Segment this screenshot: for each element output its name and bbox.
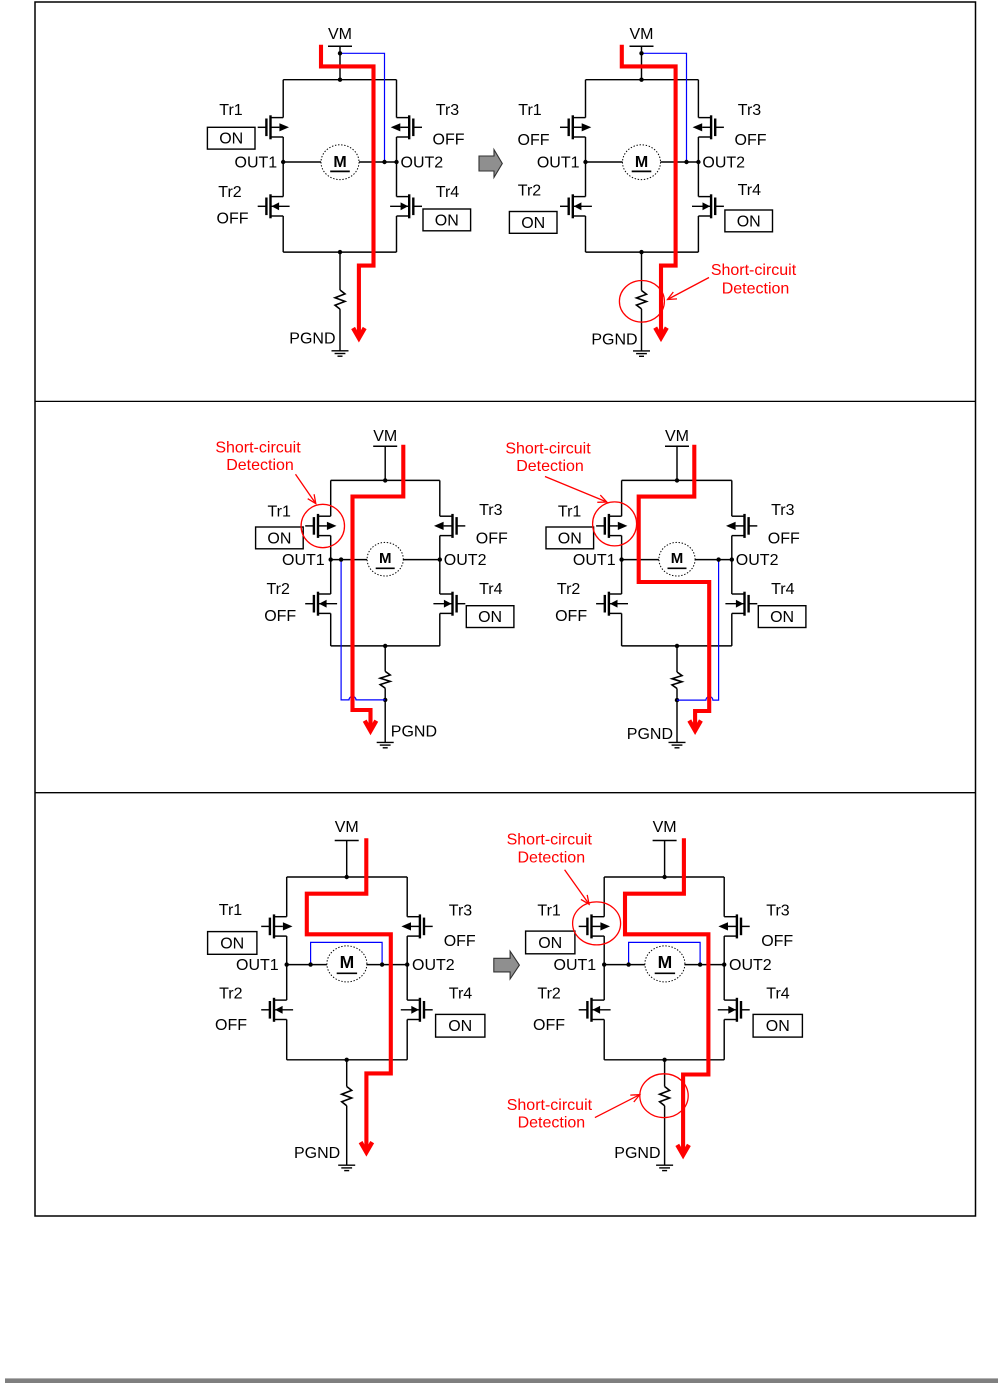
node OUT2 (C1) bbox=[394, 160, 398, 164]
ground PGND symbol (C6) bbox=[656, 1164, 673, 1166]
svg-text:M: M bbox=[635, 154, 648, 171]
wire right vertical OUT2-Tr4 (C3) bbox=[439, 560, 441, 594]
node OUT1 (C6) bbox=[602, 962, 606, 966]
svg-text:ON: ON bbox=[448, 1018, 472, 1035]
svg-text:Detection: Detection bbox=[226, 457, 294, 474]
node blue junction (C1) bbox=[382, 160, 386, 164]
transistor Tr2 (C6) bbox=[579, 998, 611, 1022]
svg-text:ON: ON bbox=[435, 212, 459, 229]
red detection circle (C6) bbox=[640, 1074, 688, 1118]
motor M (C1) bbox=[321, 145, 359, 180]
node top rail (C2) bbox=[639, 78, 643, 82]
Tr1 state ON box (C3) bbox=[256, 527, 304, 549]
svg-text:OFF: OFF bbox=[761, 933, 793, 950]
red detection circle (C6) bbox=[573, 902, 621, 945]
top rail wire (C4) bbox=[622, 479, 732, 481]
svg-text:M: M bbox=[340, 952, 355, 972]
svg-text:Detection: Detection bbox=[518, 1114, 586, 1131]
svg-text:Tr4: Tr4 bbox=[738, 182, 762, 199]
wire motor to OUT2 (C4) bbox=[695, 559, 732, 561]
Tr4 state ON box (C6) bbox=[753, 1014, 802, 1037]
bottom rail wire (C5) bbox=[287, 1059, 408, 1061]
svg-text:Tr2: Tr2 bbox=[537, 986, 561, 1003]
svg-text:Detection: Detection bbox=[722, 281, 790, 298]
wire right vertical lower (C1) bbox=[396, 216, 398, 252]
Tr4 state ON box (C2) bbox=[725, 210, 773, 232]
svg-text:Tr4: Tr4 bbox=[436, 184, 460, 201]
wire left vertical lower (C6) bbox=[603, 1020, 605, 1060]
wire right vertical OUT2-Tr4 (C6) bbox=[723, 965, 725, 1001]
red current path (C3) bbox=[353, 445, 404, 727]
motor M (C5) bbox=[327, 946, 367, 982]
transistor Tr4 (C6) bbox=[718, 998, 750, 1022]
top rail wire (C1) bbox=[283, 79, 396, 81]
node bottom rail (C5) bbox=[345, 1058, 349, 1062]
transistor Tr2 (C4) bbox=[596, 592, 628, 616]
node OUT1 (C2) bbox=[583, 160, 587, 164]
svg-text:Tr4: Tr4 bbox=[479, 581, 503, 598]
wire right vertical OUT2-Tr4 (C4) bbox=[731, 560, 733, 594]
bottom gray bar bbox=[5, 1378, 998, 1383]
node bottom rail (C6) bbox=[662, 1058, 666, 1062]
node blue junction (C1) bbox=[338, 51, 342, 55]
annotation arrow (C3) bbox=[296, 474, 316, 503]
transistor Tr1 (C6) bbox=[579, 914, 610, 938]
wire right vertical OUT2-Tr4 (C2) bbox=[697, 162, 699, 197]
svg-text:Tr2: Tr2 bbox=[266, 581, 290, 598]
svg-text:Tr2: Tr2 bbox=[557, 581, 581, 598]
annotation arrow (C4) bbox=[545, 477, 607, 503]
node bottom rail (C1) bbox=[338, 250, 342, 254]
transistor Tr4 (C3) bbox=[433, 592, 465, 616]
node resistor-PGND junction (C3) bbox=[383, 698, 387, 702]
svg-text:Tr3: Tr3 bbox=[771, 502, 795, 519]
svg-text:OUT1: OUT1 bbox=[554, 957, 597, 974]
wire left vertical upper (C3) bbox=[330, 480, 332, 516]
VM supply bar (C6) bbox=[653, 840, 677, 842]
svg-text:Tr1: Tr1 bbox=[219, 102, 243, 119]
sense resistor (C5) bbox=[342, 1087, 352, 1106]
svg-text:OFF: OFF bbox=[433, 132, 465, 149]
wire VM to top rail (C3) bbox=[384, 446, 386, 480]
svg-text:OFF: OFF bbox=[476, 531, 508, 548]
svg-text:OUT1: OUT1 bbox=[282, 552, 325, 569]
transistor Tr4 (C2) bbox=[692, 194, 724, 218]
svg-text:OFF: OFF bbox=[264, 608, 296, 625]
wire left vertical OUT1-Tr2 (C6) bbox=[603, 965, 605, 1001]
wire sense resistor to ground (C2) bbox=[641, 309, 643, 351]
node OUT2 (C5) bbox=[405, 962, 409, 966]
wire sense resistor to ground (C4) bbox=[676, 689, 678, 743]
svg-text:OFF: OFF bbox=[444, 933, 476, 950]
bottom rail wire (C4) bbox=[622, 645, 732, 647]
svg-text:Tr4: Tr4 bbox=[771, 581, 795, 598]
wire motor to OUT2 (C6) bbox=[685, 964, 724, 966]
svg-text:OUT1: OUT1 bbox=[235, 155, 278, 172]
wire motor to OUT2 (C3) bbox=[403, 559, 440, 561]
svg-text:Tr3: Tr3 bbox=[479, 502, 503, 519]
svg-text:ON: ON bbox=[766, 1018, 790, 1035]
wire left vertical Tr1-OUT1 (C1) bbox=[282, 137, 284, 162]
VM supply bar (C5) bbox=[335, 840, 359, 842]
top rail wire (C5) bbox=[287, 876, 408, 878]
wire left vertical OUT1-Tr2 (C5) bbox=[286, 965, 288, 1001]
wire left vertical OUT1-Tr2 (C2) bbox=[585, 162, 587, 197]
bottom rail wire (C1) bbox=[283, 251, 396, 253]
panel separator 2 bbox=[35, 792, 976, 794]
wire left vertical upper (C1) bbox=[282, 80, 284, 118]
blue short wire (C4) bbox=[677, 560, 719, 701]
blue short wire (C2) bbox=[642, 53, 687, 162]
svg-text:Tr1: Tr1 bbox=[537, 903, 561, 920]
svg-text:OFF: OFF bbox=[768, 531, 800, 548]
transistor Tr3 (C1) bbox=[391, 115, 422, 139]
red current path (C2) bbox=[622, 45, 676, 334]
Tr4 state ON box (C5) bbox=[436, 1014, 485, 1037]
node OUT1 (C5) bbox=[285, 962, 289, 966]
node blue junction (C6) bbox=[698, 962, 702, 966]
annotation arrow (C6) bbox=[595, 1095, 640, 1118]
wire right vertical upper (C4) bbox=[731, 480, 733, 516]
svg-text:ON: ON bbox=[220, 936, 244, 953]
sense resistor (C2) bbox=[637, 291, 647, 309]
svg-text:OUT2: OUT2 bbox=[729, 957, 772, 974]
sense resistor (C6) bbox=[660, 1087, 670, 1106]
svg-text:VM: VM bbox=[653, 819, 677, 836]
node blue junction (C4) bbox=[716, 557, 720, 561]
svg-text:Tr1: Tr1 bbox=[558, 504, 582, 521]
wire OUT1 to motor (C3) bbox=[331, 559, 367, 561]
transistor Tr4 (C5) bbox=[401, 998, 433, 1022]
wire bottom rail to sense resistor (C6) bbox=[664, 1060, 666, 1087]
ground PGND symbol (C2) bbox=[633, 350, 650, 352]
transistor Tr3 (C3) bbox=[434, 514, 465, 538]
wire right vertical lower (C5) bbox=[406, 1020, 408, 1060]
panel separator 1 bbox=[35, 400, 976, 402]
svg-text:Tr2: Tr2 bbox=[219, 986, 243, 1003]
node blue junction (C6) bbox=[626, 962, 630, 966]
wire right vertical upper (C5) bbox=[406, 877, 408, 917]
svg-text:Tr4: Tr4 bbox=[449, 986, 473, 1003]
wire OUT1 to motor (C6) bbox=[604, 964, 645, 966]
ground PGND symbol (C4) bbox=[669, 741, 686, 743]
wire VM to top rail (C1) bbox=[339, 46, 341, 79]
svg-text:Short-circuit: Short-circuit bbox=[507, 832, 593, 849]
bottom rail wire (C3) bbox=[331, 645, 440, 647]
node OUT1 (C1) bbox=[281, 160, 285, 164]
transistor Tr4 (C1) bbox=[390, 194, 422, 218]
svg-text:PGND: PGND bbox=[591, 331, 637, 348]
svg-text:Tr1: Tr1 bbox=[518, 102, 542, 119]
VM supply bar (C4) bbox=[665, 445, 689, 447]
top rail wire (C2) bbox=[586, 79, 699, 81]
node OUT2 (C4) bbox=[730, 557, 734, 561]
svg-text:Tr3: Tr3 bbox=[436, 102, 460, 119]
wire right vertical Tr3-OUT2 (C6) bbox=[723, 936, 725, 965]
transistor Tr3 (C6) bbox=[718, 914, 749, 938]
wire VM to top rail (C6) bbox=[664, 841, 666, 878]
ground PGND symbol (C3) bbox=[377, 741, 394, 743]
node blue junction (C5) bbox=[380, 962, 384, 966]
wire right vertical upper (C2) bbox=[697, 80, 699, 118]
annotation arrow (C2) bbox=[668, 278, 710, 300]
Tr4 state ON box (C3) bbox=[466, 606, 514, 628]
wire bottom rail to sense resistor (C2) bbox=[641, 252, 643, 290]
node OUT2 (C6) bbox=[722, 962, 726, 966]
transistor Tr2 (C5) bbox=[261, 998, 293, 1022]
wire VM to top rail (C4) bbox=[676, 446, 678, 480]
wire right vertical upper (C3) bbox=[439, 480, 441, 516]
Tr1 state ON box (C5) bbox=[208, 932, 257, 955]
node blue junction (C2) bbox=[684, 160, 688, 164]
sense resistor (C3) bbox=[380, 671, 390, 688]
svg-text:ON: ON bbox=[521, 215, 545, 232]
VM supply bar (C2) bbox=[630, 45, 654, 47]
wire sense resistor to ground (C5) bbox=[346, 1106, 348, 1166]
svg-text:Short-circuit: Short-circuit bbox=[215, 440, 301, 457]
svg-text:OFF: OFF bbox=[518, 132, 550, 149]
svg-text:PGND: PGND bbox=[294, 1145, 340, 1162]
wire left vertical Tr1-OUT1 (C2) bbox=[585, 137, 587, 162]
motor M (C4) bbox=[659, 542, 695, 576]
wire left vertical upper (C6) bbox=[603, 877, 605, 917]
wire left vertical upper (C4) bbox=[621, 480, 623, 516]
svg-text:OUT1: OUT1 bbox=[537, 155, 580, 172]
svg-text:Short-circuit: Short-circuit bbox=[711, 262, 797, 279]
svg-text:Tr3: Tr3 bbox=[449, 902, 473, 919]
svg-text:Short-circuit: Short-circuit bbox=[505, 441, 591, 458]
svg-text:PGND: PGND bbox=[391, 724, 437, 741]
svg-text:OUT2: OUT2 bbox=[444, 552, 487, 569]
transistor Tr3 (C4) bbox=[726, 514, 757, 538]
wire motor to OUT2 (C5) bbox=[367, 964, 407, 966]
transistor Tr2 (C1) bbox=[258, 194, 290, 218]
annotation arrow (C6) bbox=[565, 870, 590, 905]
wire left vertical upper (C5) bbox=[286, 877, 288, 917]
Tr1 state ON box (C1) bbox=[207, 127, 255, 149]
wire right vertical upper (C6) bbox=[723, 877, 725, 917]
blue short wire (C1) bbox=[340, 53, 385, 162]
node OUT2 (C2) bbox=[696, 160, 700, 164]
sense resistor (C1) bbox=[335, 290, 345, 309]
svg-text:Detection: Detection bbox=[516, 458, 584, 475]
wire bottom rail to sense resistor (C3) bbox=[384, 646, 386, 672]
wire OUT1 to motor (C1) bbox=[283, 161, 321, 163]
transistor Tr1 (C3) bbox=[305, 514, 336, 538]
svg-text:VM: VM bbox=[630, 26, 654, 43]
svg-text:VM: VM bbox=[373, 428, 397, 445]
svg-text:ON: ON bbox=[219, 131, 243, 148]
svg-text:ON: ON bbox=[737, 213, 761, 230]
blue short wire (C6) bbox=[629, 942, 701, 964]
motor M (C6) bbox=[645, 946, 685, 982]
wire left vertical OUT1-Tr2 (C3) bbox=[330, 560, 332, 594]
bottom rail wire (C2) bbox=[586, 251, 699, 253]
svg-text:ON: ON bbox=[478, 609, 502, 626]
svg-text:ON: ON bbox=[267, 530, 291, 547]
wire right vertical lower (C3) bbox=[439, 613, 441, 646]
node OUT2 (C3) bbox=[438, 557, 442, 561]
wire VM to top rail (C2) bbox=[641, 46, 643, 79]
wire left vertical lower (C4) bbox=[621, 613, 623, 646]
svg-text:ON: ON bbox=[770, 609, 794, 626]
wire left vertical Tr1-OUT1 (C3) bbox=[330, 536, 332, 560]
wire sense resistor to ground (C6) bbox=[664, 1106, 666, 1166]
Tr1 state ON box (C6) bbox=[526, 931, 575, 954]
wire OUT1 to motor (C4) bbox=[622, 559, 659, 561]
wire right vertical Tr3-OUT2 (C5) bbox=[406, 936, 408, 965]
svg-text:M: M bbox=[658, 952, 673, 972]
svg-text:Tr1: Tr1 bbox=[267, 504, 291, 521]
top rail wire (C3) bbox=[331, 479, 440, 481]
wire right vertical lower (C2) bbox=[697, 216, 699, 252]
wire bottom rail to sense resistor (C4) bbox=[676, 646, 678, 672]
red detection circle (C3) bbox=[301, 504, 344, 547]
transistor Tr3 (C5) bbox=[401, 914, 432, 938]
svg-text:Tr4: Tr4 bbox=[766, 986, 790, 1003]
node blue junction (C5) bbox=[308, 962, 312, 966]
red current path (C1) bbox=[321, 45, 374, 335]
svg-text:OFF: OFF bbox=[217, 211, 249, 228]
node top rail (C1) bbox=[338, 78, 342, 82]
svg-text:ON: ON bbox=[538, 935, 562, 952]
wire OUT1 to motor (C5) bbox=[287, 964, 327, 966]
svg-text:Tr2: Tr2 bbox=[518, 183, 542, 200]
wire right vertical Tr3-OUT2 (C3) bbox=[439, 536, 441, 560]
svg-text:M: M bbox=[333, 154, 346, 171]
ground PGND symbol (C5) bbox=[338, 1164, 355, 1166]
red current path (C4) bbox=[639, 445, 710, 727]
svg-text:Tr3: Tr3 bbox=[738, 102, 762, 119]
node bottom rail (C2) bbox=[639, 250, 643, 254]
transistor Tr4 (C4) bbox=[725, 592, 757, 616]
wire left vertical upper (C2) bbox=[585, 80, 587, 118]
wire right vertical OUT2-Tr4 (C5) bbox=[406, 965, 408, 1001]
svg-text:M: M bbox=[379, 550, 392, 567]
svg-text:ON: ON bbox=[558, 530, 582, 547]
svg-text:OFF: OFF bbox=[735, 132, 767, 149]
Tr2 state ON box (C2) bbox=[509, 212, 557, 234]
svg-text:PGND: PGND bbox=[627, 726, 673, 743]
svg-text:OUT2: OUT2 bbox=[401, 155, 444, 172]
bottom rail wire (C6) bbox=[604, 1059, 724, 1061]
svg-text:OFF: OFF bbox=[533, 1017, 565, 1034]
transistor Tr2 (C2) bbox=[560, 194, 592, 218]
svg-text:Tr1: Tr1 bbox=[219, 902, 243, 919]
transistor Tr1 (C4) bbox=[596, 514, 627, 538]
wire OUT1 to motor (C2) bbox=[586, 161, 623, 163]
node bottom rail (C4) bbox=[675, 644, 679, 648]
svg-text:PGND: PGND bbox=[614, 1145, 660, 1162]
node resistor-PGND junction (C4) bbox=[675, 698, 679, 702]
node top rail (C5) bbox=[345, 875, 349, 879]
wire left vertical lower (C1) bbox=[282, 216, 284, 252]
node blue junction (C3) bbox=[339, 557, 343, 561]
svg-text:OFF: OFF bbox=[555, 608, 587, 625]
Tr4 state ON box (C1) bbox=[423, 209, 471, 231]
wire bottom rail to sense resistor (C5) bbox=[346, 1060, 348, 1087]
transistor Tr1 (C5) bbox=[261, 914, 292, 938]
ground PGND symbol (C1) bbox=[332, 350, 349, 352]
gray transition arrow (panel 3) bbox=[494, 951, 520, 979]
red detection circle (C4) bbox=[593, 502, 637, 546]
node top rail (C3) bbox=[383, 478, 387, 482]
transistor Tr1 (C2) bbox=[560, 115, 591, 139]
Tr4 state ON box (C4) bbox=[758, 606, 806, 628]
motor M (C3) bbox=[367, 542, 403, 576]
svg-text:OUT2: OUT2 bbox=[412, 957, 455, 974]
Tr1 state ON box (C4) bbox=[546, 527, 594, 549]
svg-text:OFF: OFF bbox=[215, 1017, 247, 1034]
node blue junction (C2) bbox=[639, 51, 643, 55]
wire left vertical Tr1-OUT1 (C4) bbox=[621, 536, 623, 560]
svg-text:Short-circuit: Short-circuit bbox=[507, 1097, 593, 1114]
motor M (C2) bbox=[623, 145, 661, 180]
VM supply bar (C1) bbox=[328, 45, 352, 47]
wire motor to OUT2 (C1) bbox=[359, 161, 397, 163]
node OUT1 (C3) bbox=[329, 557, 333, 561]
transistor Tr1 (C1) bbox=[258, 115, 289, 139]
transistor Tr2 (C3) bbox=[305, 592, 337, 616]
wire right vertical upper (C1) bbox=[396, 80, 398, 118]
svg-text:OUT2: OUT2 bbox=[736, 552, 779, 569]
wire left vertical Tr1-OUT1 (C6) bbox=[603, 936, 605, 965]
svg-text:Detection: Detection bbox=[518, 849, 586, 866]
wire left vertical OUT1-Tr2 (C4) bbox=[621, 560, 623, 594]
wire left vertical lower (C2) bbox=[585, 216, 587, 252]
wire right vertical Tr3-OUT2 (C2) bbox=[697, 137, 699, 162]
red current path (C5) bbox=[307, 838, 391, 1148]
wire motor to OUT2 (C2) bbox=[661, 161, 699, 163]
wire right vertical Tr3-OUT2 (C4) bbox=[731, 536, 733, 560]
red detection circle (C2) bbox=[619, 281, 664, 323]
sense resistor (C4) bbox=[672, 672, 682, 689]
node top rail (C6) bbox=[662, 875, 666, 879]
node OUT1 (C4) bbox=[619, 557, 623, 561]
wire sense resistor to ground (C1) bbox=[339, 309, 341, 351]
wire sense resistor to ground (C3) bbox=[384, 688, 386, 742]
red current path (C6) bbox=[625, 838, 708, 1151]
wire right vertical lower (C4) bbox=[731, 613, 733, 646]
wire left vertical Tr1-OUT1 (C5) bbox=[286, 936, 288, 965]
VM supply bar (C3) bbox=[373, 445, 397, 447]
top rail wire (C6) bbox=[604, 876, 724, 878]
wire right vertical Tr3-OUT2 (C1) bbox=[396, 137, 398, 162]
node top rail (C4) bbox=[675, 478, 679, 482]
svg-text:OUT2: OUT2 bbox=[702, 155, 745, 172]
blue short wire (C3) bbox=[341, 560, 385, 700]
wire right vertical lower (C6) bbox=[723, 1020, 725, 1060]
blue short wire (C5) bbox=[311, 942, 383, 964]
wire VM to top rail (C5) bbox=[346, 841, 348, 878]
svg-text:Tr3: Tr3 bbox=[766, 902, 790, 919]
svg-text:VM: VM bbox=[335, 819, 359, 836]
svg-text:OUT1: OUT1 bbox=[573, 552, 616, 569]
wire left vertical lower (C5) bbox=[286, 1020, 288, 1060]
svg-text:VM: VM bbox=[665, 428, 689, 445]
wire left vertical lower (C3) bbox=[330, 613, 332, 646]
svg-text:Tr2: Tr2 bbox=[218, 184, 242, 201]
wire left vertical OUT1-Tr2 (C1) bbox=[282, 162, 284, 197]
wire right vertical OUT2-Tr4 (C1) bbox=[396, 162, 398, 197]
wire bottom rail to sense resistor (C1) bbox=[339, 252, 341, 290]
svg-text:PGND: PGND bbox=[289, 331, 335, 348]
svg-text:OUT1: OUT1 bbox=[236, 957, 279, 974]
transistor Tr3 (C2) bbox=[693, 115, 724, 139]
svg-text:M: M bbox=[671, 550, 684, 567]
svg-text:VM: VM bbox=[328, 26, 352, 43]
gray transition arrow (panel 1) bbox=[479, 150, 502, 178]
